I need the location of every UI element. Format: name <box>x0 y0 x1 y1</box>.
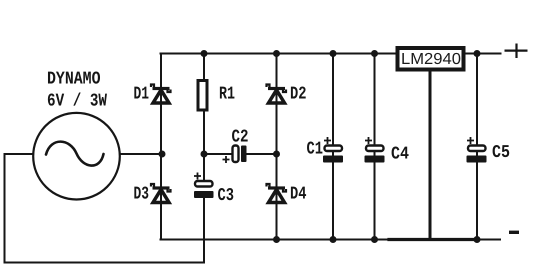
diode D4 <box>267 184 287 203</box>
capacitor C1 (vertical electrolytic) <box>323 137 343 163</box>
capacitor C2 (horizontal electrolytic) <box>223 146 247 164</box>
junction dot bottom C5 <box>474 236 481 243</box>
wire dynamo left lead <box>5 154 205 263</box>
diode D2 <box>267 85 287 104</box>
junction dot top R1 <box>201 50 208 57</box>
svg-text:DYNAMO: DYNAMO <box>47 70 101 90</box>
svg-text:LM2940: LM2940 <box>401 51 461 68</box>
junction dot C2/D2/D4 node <box>273 151 280 158</box>
resistor R1 <box>198 81 207 111</box>
junction dot dynamo node <box>159 151 166 158</box>
junction dot bottom C4 <box>371 236 378 243</box>
wire bottom bus thick segment near regulator ground <box>389 238 478 241</box>
wire C1 branch vertical <box>332 54 334 240</box>
svg-text:6V / 3W: 6V / 3W <box>47 92 107 112</box>
wire LM2940 ground pin <box>429 72 432 240</box>
wire dynamo right lead <box>120 153 163 155</box>
wire C5 output branch vertical <box>476 54 478 240</box>
svg-text:C2: C2 <box>232 128 249 148</box>
junction dot top C1 <box>330 50 337 57</box>
junction dot bottom C1 <box>330 236 337 243</box>
svg-text:C3: C3 <box>218 186 235 206</box>
wire D2/D4 branch vertical <box>276 54 278 240</box>
svg-text:D3: D3 <box>134 185 150 205</box>
wire C2 right lead <box>247 153 277 155</box>
dynamo generator G1 circle <box>33 113 120 200</box>
wire top bus right segment <box>465 53 501 55</box>
capacitor C5 (vertical electrolytic) <box>467 137 487 163</box>
capacitor C3 (vertical electrolytic) <box>194 173 214 199</box>
wire D1/D3 branch vertical <box>160 54 162 240</box>
svg-text:D2: D2 <box>290 85 307 105</box>
wire top bus left segment <box>161 53 397 55</box>
svg-text:C4: C4 <box>391 145 409 165</box>
wire C2 left lead <box>204 153 233 155</box>
junction dot top D2 <box>273 50 280 57</box>
wire dynamo return riser <box>203 198 205 263</box>
dynamo sine wave <box>46 142 104 166</box>
capacitor C4 (vertical electrolytic) <box>365 137 385 163</box>
svg-text:D4: D4 <box>290 185 307 205</box>
junction dot top C4 <box>371 50 378 57</box>
svg-text:C1: C1 <box>307 140 324 160</box>
wire bottom negative bus <box>161 239 501 241</box>
svg-text:C5: C5 <box>492 143 510 163</box>
wire R1 branch vertical <box>203 54 205 155</box>
junction dot bottom D4 <box>273 236 280 243</box>
regulator U1 LM2940 box <box>398 48 464 70</box>
wire C3 top lead <box>203 154 205 181</box>
wire C4 branch vertical <box>374 54 376 240</box>
junction dot top C5 output <box>474 50 481 57</box>
svg-text:R1: R1 <box>219 85 235 105</box>
diode D1 <box>151 85 171 104</box>
junction dot node A R1/C2/C3 <box>201 151 208 158</box>
svg-text:D1: D1 <box>134 85 150 105</box>
terminal - output <box>509 231 519 234</box>
terminal + output <box>505 44 528 59</box>
diode D3 <box>151 184 171 203</box>
